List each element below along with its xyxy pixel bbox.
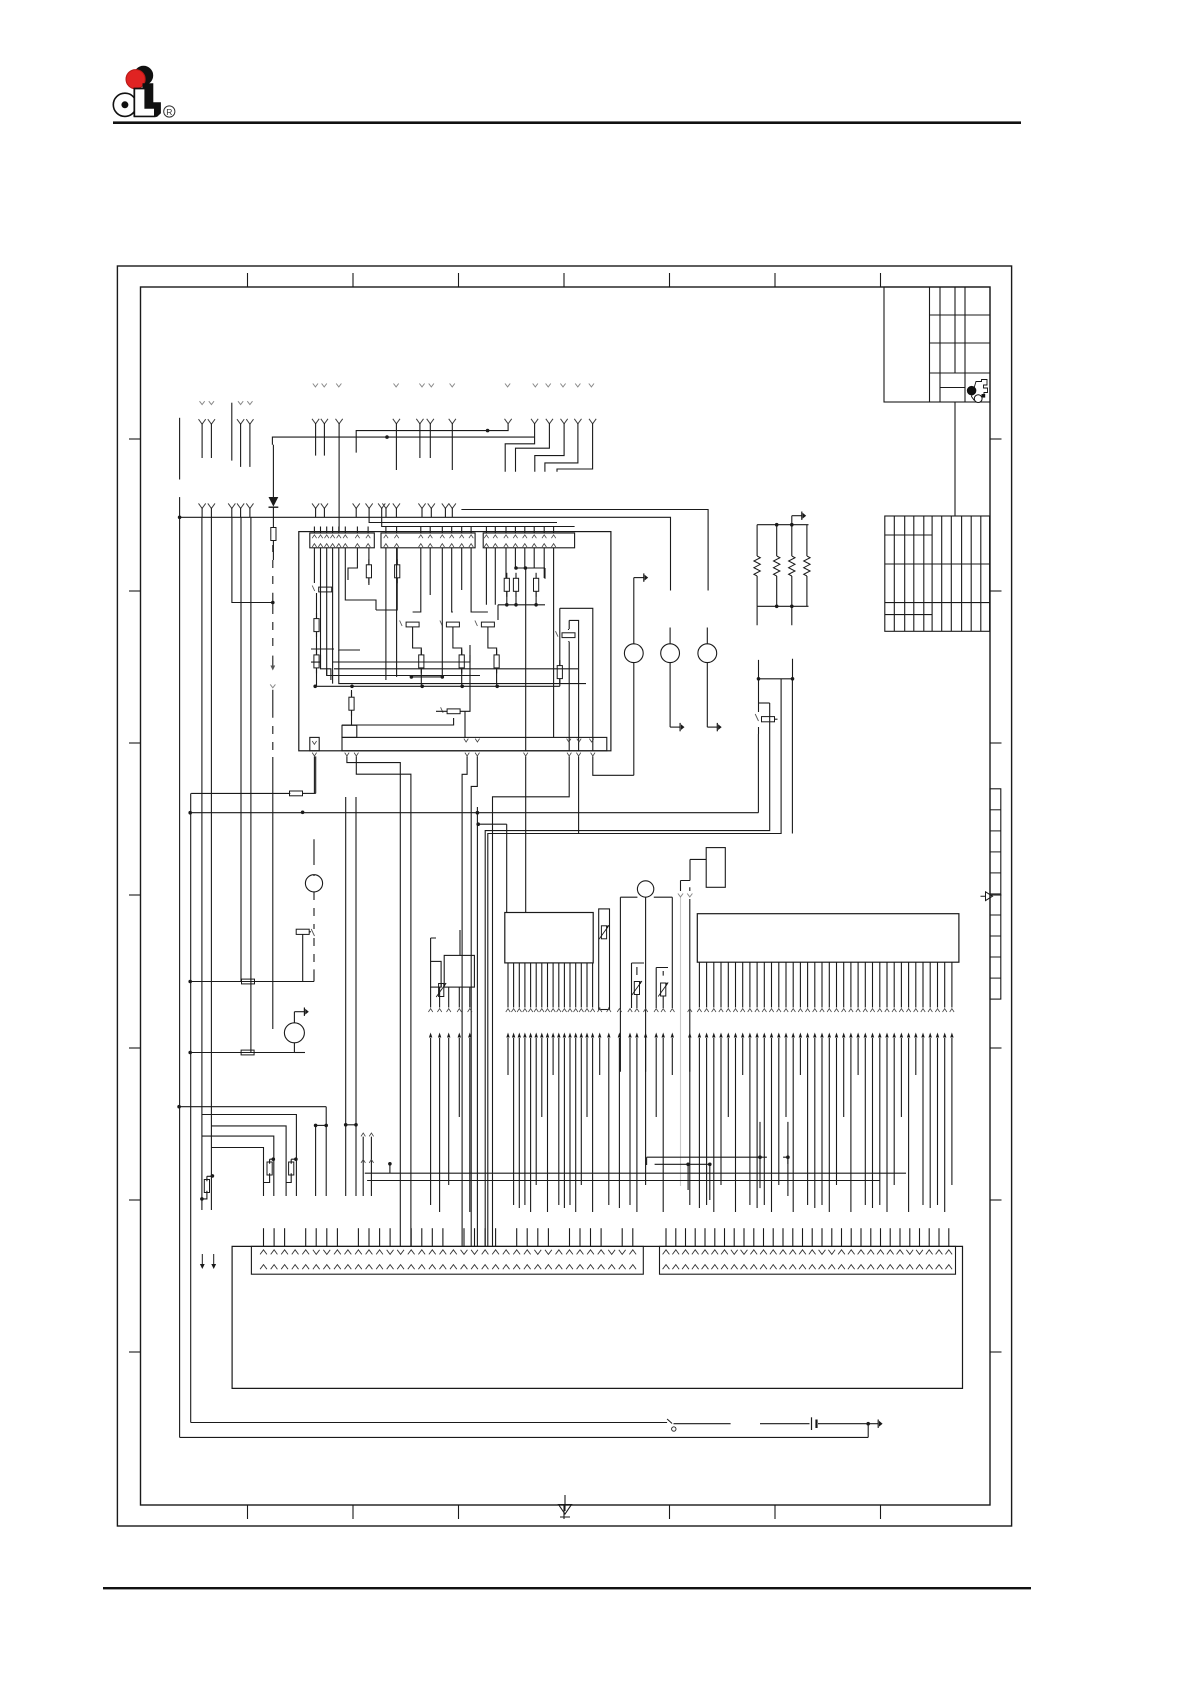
logo dL letter d dot	[122, 102, 128, 108]
wire grey artifact	[680, 897, 682, 1186]
wire group1 tall	[231, 403, 233, 461]
border tick right 7	[990, 1351, 1002, 1353]
bus riser arrow 45	[792, 1033, 795, 1038]
title block B row 4	[885, 614, 932, 616]
wire exits below box	[313, 756, 315, 793]
CN2 pin stub 12	[772, 1228, 774, 1246]
bus riser arrow 57	[878, 1033, 882, 1038]
wire left col c	[232, 517, 273, 602]
pin chevron row 29	[661, 1009, 665, 1012]
CN1 pin stub 36	[632, 1228, 634, 1246]
net stub chevron upper 4	[394, 384, 399, 387]
wire U2 pin 23	[857, 962, 859, 1007]
wire RN1 resume	[759, 659, 793, 679]
wire exit chevron 3	[354, 753, 358, 756]
CN1 pin chevron 13	[387, 1250, 394, 1255]
title block B row 1	[885, 534, 932, 536]
bus riser arrow 5	[468, 1033, 471, 1038]
bus riser arrow 35	[719, 1033, 722, 1038]
CN1 pin chevron 27	[534, 1250, 541, 1255]
down arrows pair	[201, 1254, 203, 1266]
bus riser arrow 31	[688, 1033, 691, 1038]
wire U2 pin 33	[929, 962, 931, 1007]
logo dL letter L shadow	[143, 84, 160, 117]
wire RN2 pin 2	[608, 1008, 610, 1010]
CN1 pin chevron 34	[608, 1250, 615, 1255]
CN2 pin stub 22	[870, 1228, 872, 1246]
CN1 pin stub 20	[463, 1228, 465, 1246]
wire stub above connector 19	[505, 527, 507, 534]
bus riser arrow 23	[607, 1033, 610, 1038]
wire U1 pin 16	[592, 963, 594, 1008]
small box feeds right	[656, 968, 668, 1009]
CN2 pin chevron 2	[672, 1250, 679, 1255]
resistor R11	[496, 649, 498, 655]
CN2 pin stub 24	[889, 1228, 891, 1246]
top horizontal rule	[113, 121, 1021, 124]
bottom module outline	[232, 1246, 962, 1388]
wire left col a	[201, 517, 203, 1210]
border tick bottom 7	[880, 1505, 882, 1519]
wire riser y503 9	[382, 503, 389, 508]
connector row J3	[483, 533, 574, 548]
wire nested L1	[311, 649, 334, 680]
resistor R10	[461, 649, 463, 655]
bus run A y812	[190, 812, 758, 814]
bus riser arrow 54	[856, 1033, 859, 1038]
bus central y686	[315, 685, 560, 687]
bus riser arrow 51	[835, 1033, 838, 1038]
wire drop y1164	[688, 1164, 710, 1200]
CN2 pin chevron 12	[770, 1250, 777, 1255]
bus riser arrow 27	[644, 1033, 647, 1038]
CN1 pin stub 31	[579, 1228, 581, 1246]
pin chevron row 23	[607, 1009, 611, 1012]
CN1 pin stub 21	[474, 1228, 476, 1246]
wire RT1 tail	[636, 995, 638, 1008]
wire staircase jog 2	[546, 419, 553, 424]
net stub chevron upper 10	[546, 384, 551, 387]
wire U1 pin 7	[541, 963, 543, 1008]
CN2 pin chevron 24	[887, 1250, 894, 1255]
CN2 pin chevron 5	[702, 1250, 709, 1255]
wire exit run 8	[525, 756, 527, 912]
bus riser arrow 61	[907, 1033, 910, 1038]
CN1 pin chevron 36	[629, 1250, 636, 1255]
resistor R12	[559, 660, 561, 666]
wire stub above connector 15	[461, 527, 463, 534]
diode D1	[269, 497, 279, 507]
bus riser arrow 52	[842, 1033, 845, 1038]
CN2 pin stub 29	[938, 1228, 940, 1246]
wire nested loop top	[759, 702, 770, 704]
pin chevron row 44	[784, 1009, 788, 1012]
switch S9 small	[667, 1419, 672, 1424]
wire stub above connector 4	[332, 527, 334, 534]
pin chevron row 4	[457, 1009, 461, 1012]
switch contact S5	[556, 631, 559, 637]
pin chevron row 36	[726, 1009, 730, 1012]
pin chevron row 37	[733, 1009, 737, 1012]
CN2 pin chevron 29	[936, 1250, 943, 1255]
bus riser arrow 19	[580, 1033, 583, 1038]
CN2 pin chevron 3	[682, 1250, 689, 1255]
wire left bus2 to bottom	[190, 793, 192, 1422]
wire M2 top	[431, 930, 460, 961]
bus riser arrow 1	[429, 1033, 432, 1038]
wire contact S5 net	[568, 629, 570, 642]
bus riser arrow 13	[546, 1033, 549, 1038]
title block B col 2	[904, 516, 906, 631]
pin chevron row 8	[517, 1009, 521, 1012]
wire riser y503 12	[428, 503, 435, 508]
IC U2 block	[697, 914, 959, 963]
wire left bus main top	[179, 418, 181, 480]
wire U1 pin 5	[530, 963, 532, 1008]
bus y1106	[179, 1106, 326, 1108]
svg-text:R: R	[166, 107, 172, 117]
wire stub above connector 13	[441, 527, 443, 534]
wire Q3 left drop	[619, 897, 621, 1072]
bus riser arrow 36	[727, 1033, 730, 1038]
resistor R1 below diode	[272, 517, 274, 527]
bus riser arrow 48	[813, 1033, 816, 1038]
CN2 pin chevron 8	[731, 1250, 738, 1255]
title block B col 4	[923, 516, 925, 631]
wire riser y503 8	[353, 503, 360, 508]
bus riser arrow 4	[458, 1033, 461, 1038]
resistor network RN1 top bus	[757, 524, 808, 526]
wire U1 pin 9	[552, 963, 554, 1008]
wire bottom upper run	[191, 1422, 667, 1424]
wire box1 pin drops	[314, 548, 332, 684]
bus riser arrow 12	[540, 1033, 543, 1038]
power flag bottom	[868, 1423, 878, 1425]
wire group4 b	[427, 419, 434, 424]
wire Q1 top	[313, 839, 315, 876]
CN2 pin chevron 30	[945, 1250, 952, 1255]
wire U1 pin 14	[580, 963, 582, 1008]
bus riser arrow 18	[574, 1033, 577, 1038]
lamp circle B2	[661, 644, 680, 663]
wire exit run 2	[356, 756, 411, 1246]
CN2 pin stub 9	[743, 1228, 745, 1246]
pin chevron row 32	[697, 1009, 701, 1012]
pin chevron row 40	[755, 1009, 759, 1012]
bus riser arrow 43	[777, 1033, 780, 1038]
wire exit chevron 5	[475, 753, 479, 756]
border tick top 1	[247, 273, 249, 287]
wire staircase jog 4	[574, 419, 581, 424]
wire group1	[199, 419, 206, 424]
switch contact S4	[475, 621, 478, 627]
wire RN1 tails	[757, 606, 792, 625]
wire stub above connector 20	[514, 527, 516, 534]
node junction left bus	[178, 516, 182, 520]
resistor R2	[368, 559, 370, 565]
wire RT2 tail	[662, 997, 664, 1009]
switch contact S1	[312, 586, 315, 592]
CN2 pin stub 23	[880, 1228, 882, 1246]
bus riser arrow 11	[535, 1033, 538, 1038]
CN1 pin chevron 10	[355, 1250, 362, 1255]
bus box3 y568	[515, 567, 545, 569]
CN1 pin stub 28	[547, 1228, 549, 1246]
bus riser arrow 15	[557, 1033, 560, 1038]
pin chevron row 35	[719, 1009, 723, 1012]
wire U2 pin 18	[821, 962, 823, 1007]
pin chevron row 65	[935, 1009, 939, 1012]
pin chevron row 1	[428, 1009, 432, 1012]
CN2 pin stub 14	[792, 1228, 794, 1246]
CN1 pin chevron 1	[260, 1250, 267, 1255]
pin chevron row 26	[635, 1009, 639, 1012]
pin chevron row 59	[892, 1009, 896, 1012]
wire stub above connector 23	[543, 527, 545, 534]
wire net box1a	[339, 548, 376, 650]
CN1 pin chevron 15	[408, 1250, 415, 1255]
wire riser y503 7	[321, 503, 328, 508]
wire U2 pin 21	[843, 962, 845, 1007]
border tick right 6	[990, 1199, 1002, 1201]
wire U2 pin 11	[771, 962, 773, 1007]
bus upper horizontal	[356, 423, 508, 452]
CN1 pin chevron 3	[281, 1250, 288, 1255]
bus riser arrow 22	[598, 1033, 601, 1038]
wire U2 pin 13	[785, 962, 787, 1007]
CN1 pin stub 17	[431, 1228, 433, 1246]
net stub chevron upper 8	[505, 384, 510, 387]
revision strip rung 5	[990, 893, 1001, 895]
pin chevron row 53	[849, 1009, 853, 1012]
title block B col 5	[931, 516, 933, 631]
wire U2 pin 5	[727, 962, 729, 1007]
resistor R15 bridge	[207, 1176, 213, 1181]
CN2 pin stub 27	[919, 1228, 921, 1246]
title block B col 8	[961, 516, 963, 631]
wire U2 pin 12	[778, 962, 780, 1007]
wire group4 a	[416, 419, 423, 424]
net stub chevron upper 11	[560, 384, 565, 387]
CN1 pin stub 8	[336, 1228, 338, 1246]
revision marker triangle	[981, 892, 993, 901]
border tick bottom 4	[563, 1505, 565, 1519]
title block A row 3	[930, 372, 991, 374]
IC U1 block	[505, 913, 593, 963]
logo dL red circle	[126, 70, 145, 89]
bus box3 y605	[498, 604, 545, 606]
pin chevron row 18	[574, 1009, 578, 1012]
bus Q3	[620, 896, 637, 898]
wire M pin 5	[469, 987, 471, 1007]
CN1 pin chevron 21	[471, 1250, 478, 1255]
CN1 pin stub 11	[368, 1228, 370, 1246]
CN1 pin chevron 16	[418, 1250, 425, 1255]
wire left col b	[210, 517, 212, 1210]
border tick top 4	[563, 273, 565, 287]
bus riser arrow 42	[770, 1033, 773, 1038]
switch contact S3	[440, 621, 443, 627]
bus secondary y509	[461, 510, 708, 591]
bus riser arrow 24	[618, 1033, 621, 1038]
resistor R6	[535, 573, 537, 579]
wire riser y503 11	[418, 503, 425, 508]
title block A col 3	[954, 287, 956, 373]
wire stub above connector 5	[338, 527, 340, 534]
border tick right 5	[990, 1047, 1002, 1049]
wire U2 pin 31	[915, 962, 917, 1007]
wire U1 pin 13	[575, 963, 577, 1008]
wire stub x760	[760, 1122, 788, 1196]
CN2 pin chevron 28	[926, 1250, 933, 1255]
wire U2 pin 2	[706, 962, 708, 1007]
border tick right 3	[990, 742, 1002, 744]
border tick right 1	[990, 438, 1002, 440]
pin chevron row 63	[921, 1009, 925, 1012]
bus riser arrow 29	[662, 1033, 665, 1038]
wire stub above connector 11	[420, 527, 422, 534]
title block A col 4	[964, 287, 966, 402]
wire U1 pin 8	[547, 963, 549, 1008]
wire U2 pin 36	[951, 962, 953, 1007]
mini logo in title block	[972, 380, 988, 401]
border tick left 4	[129, 894, 141, 896]
wire net contact column 3	[488, 627, 497, 686]
CN1 pin stub 33	[600, 1228, 602, 1246]
title block B outline	[885, 516, 990, 631]
title block A col 2	[939, 287, 941, 402]
pin chevron row 24	[617, 1009, 621, 1012]
pin chevron row 66	[943, 1009, 947, 1012]
wire net box3 drops	[486, 548, 553, 738]
CN1 pin chevron 2	[271, 1250, 278, 1255]
pin chevron row 19	[579, 1009, 583, 1012]
jumper pair 2	[346, 1124, 356, 1126]
outer border frame	[117, 266, 1011, 1526]
jumper pair 1	[316, 1124, 327, 1126]
wire exit chevron 4	[465, 753, 469, 756]
power flag lamp B1	[634, 577, 644, 579]
node junction bus lower	[385, 435, 389, 439]
CN1 pin chevron 28	[545, 1250, 552, 1255]
wire group5	[449, 419, 456, 424]
resistor R8	[316, 649, 318, 655]
pin chevron row 50	[827, 1009, 831, 1012]
wire bottom upper run b	[760, 1423, 810, 1425]
dashed net arrow	[272, 656, 274, 668]
title block A-B link vertical	[954, 402, 956, 516]
wire hook 2	[211, 1126, 286, 1196]
CN1 pin chevron 32	[587, 1250, 594, 1255]
CN2 pin chevron 21	[858, 1250, 865, 1255]
wire stub above connector 3	[326, 527, 328, 534]
resistor RN1 element 1	[756, 525, 758, 556]
pin chevron row 58	[885, 1009, 889, 1012]
bus riser arrow 7	[512, 1033, 515, 1038]
node Q1 bus dots	[301, 811, 305, 815]
CN1 pin stub 5	[305, 1228, 307, 1246]
CN1 pin stub 23	[495, 1228, 497, 1246]
wire right C nest outer	[560, 608, 593, 751]
CN2 pin chevron 22	[867, 1250, 874, 1255]
wire diode feed	[272, 445, 274, 497]
logo dL letter d stem	[134, 89, 142, 117]
wire hook 1	[202, 1115, 297, 1197]
CN2 pin stub 10	[753, 1228, 755, 1246]
pin chevron row 30	[670, 1009, 674, 1012]
CN1 pin stub 30	[569, 1228, 571, 1246]
bus y1157 right	[647, 1156, 767, 1158]
pin chevron row 49	[820, 1009, 824, 1012]
inner border frame	[141, 287, 991, 1505]
wire x272 lower	[272, 757, 274, 1029]
border tick right 4	[990, 894, 1002, 896]
bus main y517	[180, 517, 671, 590]
net stub chevron left 4	[247, 401, 252, 404]
bus box feed 2	[382, 509, 575, 527]
switch contact S6	[441, 707, 444, 713]
CN2 pin chevron 18	[828, 1250, 835, 1255]
wire exit chevron 8	[576, 753, 580, 756]
bus riser arrow 14	[551, 1033, 554, 1038]
module box M3	[444, 955, 474, 987]
CN2 pin chevron 9	[741, 1250, 748, 1255]
wire U2 pin 24	[864, 962, 866, 1007]
wire left bus main mid	[179, 497, 181, 517]
wire riser y503 13	[442, 503, 449, 508]
logo dL black circle	[134, 66, 152, 84]
pin chevron row 55	[863, 1009, 867, 1012]
lamp circle B3	[698, 644, 717, 663]
wire U1 pin 4	[524, 963, 526, 1008]
jumper x477 to U1 feed	[477, 823, 506, 825]
CN2 pin chevron 17	[819, 1250, 826, 1255]
bus riser arrow 2	[438, 1033, 441, 1038]
node bottom junction	[866, 1422, 870, 1426]
title block B col 3	[913, 516, 915, 631]
bus riser arrow 66	[943, 1033, 946, 1038]
CN2 pin chevron 14	[789, 1250, 796, 1255]
wire exit chevron 7	[567, 753, 571, 756]
CN2 pin stub 17	[821, 1228, 823, 1246]
wire Q1 bottom dashes	[313, 892, 315, 929]
wire stub above connector 9	[385, 527, 387, 534]
CN1 pin chevron 29	[556, 1250, 563, 1255]
wire net resistor cluster drops	[498, 591, 536, 620]
wire M pin 4	[458, 987, 460, 1007]
CN1 pin stub 27	[537, 1228, 539, 1246]
bus lower horizontal	[272, 437, 534, 445]
CN2 pin stub 30	[948, 1228, 950, 1246]
wire M1 left	[681, 859, 707, 880]
border tick top 3	[458, 273, 460, 287]
CN1 pin chevron 9	[345, 1250, 352, 1255]
wire U2 pin 7	[742, 962, 744, 1007]
title block B row 3	[885, 602, 990, 604]
wire net contact column 1	[413, 627, 422, 686]
bus riser arrow 44	[784, 1033, 787, 1038]
CN1 pin stub 26	[526, 1228, 528, 1246]
wire vertical x477	[476, 807, 478, 1246]
small cap block drops	[632, 963, 645, 1008]
resistor RN1 element 2	[776, 525, 778, 556]
power flag Q2	[293, 1012, 295, 1023]
node junction bus upper	[486, 429, 490, 433]
wire long drop x525	[525, 568, 527, 751]
CN2 pin chevron 19	[838, 1250, 845, 1255]
resistor R9	[420, 649, 422, 655]
revision strip outline	[990, 789, 1001, 999]
